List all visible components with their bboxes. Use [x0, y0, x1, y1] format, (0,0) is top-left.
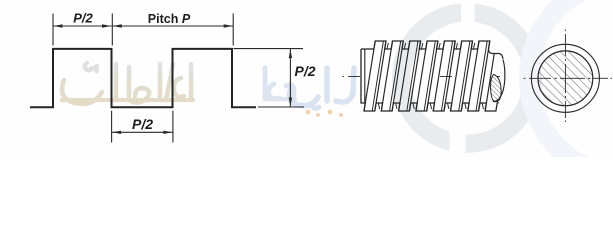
watermark blue arabic word	[289, 68, 354, 109]
screw right runout top	[489, 49, 504, 59]
right dim bottom extension	[258, 106, 304, 108]
screw thread runout hatched teardrop	[491, 75, 502, 102]
extension line mid x112.3	[111, 14, 113, 46]
screw thread rib edges	[364, 41, 494, 111]
watermark blue arabic cluster	[265, 68, 295, 99]
end view inner hatched circle	[538, 51, 593, 106]
dimension line P/2 right vertical	[289, 49, 292, 107]
end view vertical centerline	[564, 30, 566, 123]
screw bottom thread profile	[361, 103, 499, 111]
watermark right edge ring	[519, 0, 613, 186]
watermark tan arabic word	[62, 63, 193, 104]
dimension line P/2 bottom	[112, 131, 173, 134]
svg-text:P/2: P/2	[132, 116, 153, 132]
svg-text:P/2: P/2	[73, 11, 93, 26]
bottom dim extension lines	[111, 111, 113, 143]
right dim top extension	[234, 48, 304, 50]
screw right end cap curve	[493, 60, 505, 102]
end view horizontal centerline	[524, 77, 613, 79]
thread profile square wave	[30, 49, 256, 107]
dimension line P/2 top	[53, 24, 112, 27]
end view outer circle	[531, 44, 599, 112]
dimension line Pitch P	[112, 24, 233, 27]
screw centerline	[343, 76, 501, 78]
svg-text:Pitch P: Pitch P	[148, 12, 191, 26]
watermark orange marks	[306, 110, 343, 117]
screw left end cap	[360, 49, 362, 104]
extension line right x233.2	[232, 14, 234, 46]
extension line left x53	[52, 14, 54, 46]
watermark ring logo	[392, 0, 542, 157]
screw back thread edges in valleys	[378, 43, 483, 109]
screw thread side-face inner edges	[372, 41, 487, 111]
screw top thread profile	[361, 41, 490, 49]
svg-text:P/2: P/2	[295, 63, 316, 79]
